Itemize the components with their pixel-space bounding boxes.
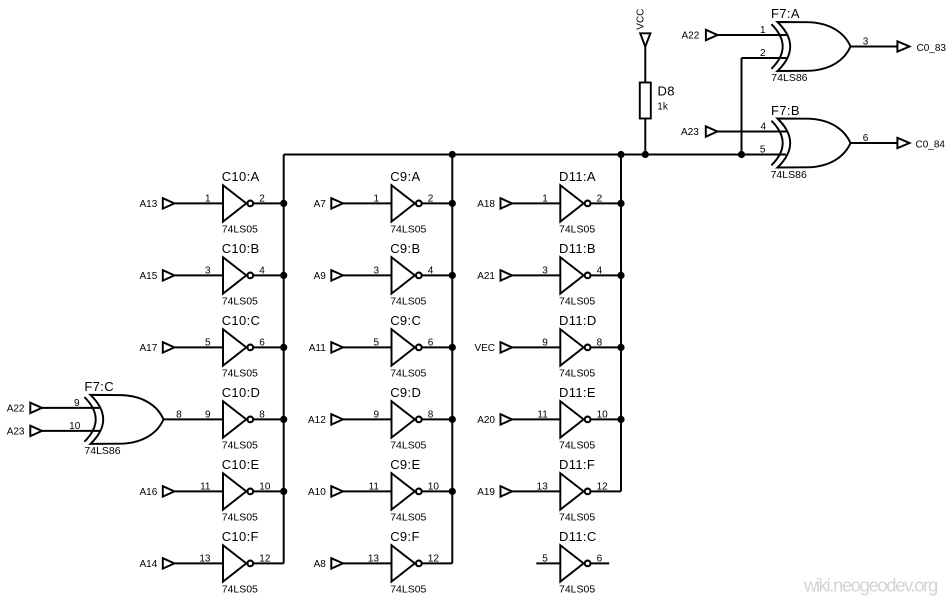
svg-text:12: 12 [597, 481, 609, 492]
svg-text:A8: A8 [314, 559, 327, 570]
svg-text:74LS05: 74LS05 [390, 223, 426, 235]
svg-text:C0_83: C0_83 [917, 43, 947, 54]
svg-text:A22: A22 [7, 404, 25, 415]
svg-text:3: 3 [373, 265, 379, 276]
svg-text:74LS05: 74LS05 [559, 583, 595, 595]
svg-text:8: 8 [597, 337, 603, 348]
svg-text:5: 5 [373, 337, 379, 348]
svg-text:8: 8 [428, 409, 434, 420]
svg-text:6: 6 [597, 553, 603, 564]
svg-text:5: 5 [542, 553, 548, 564]
svg-text:1: 1 [373, 193, 379, 204]
svg-text:74LS05: 74LS05 [390, 583, 426, 595]
svg-text:9: 9 [542, 337, 548, 348]
svg-text:6: 6 [259, 337, 265, 348]
svg-text:9: 9 [205, 409, 211, 420]
svg-text:A21: A21 [477, 271, 495, 282]
svg-text:C9:E: C9:E [390, 457, 420, 472]
svg-text:74LS86: 74LS86 [771, 72, 807, 84]
svg-text:2: 2 [259, 193, 265, 204]
svg-text:74LS05: 74LS05 [559, 223, 595, 235]
svg-text:74LS86: 74LS86 [84, 445, 120, 457]
svg-text:74LS05: 74LS05 [222, 511, 258, 523]
svg-text:10: 10 [597, 409, 609, 420]
svg-text:13: 13 [199, 553, 211, 564]
svg-text:2: 2 [428, 193, 434, 204]
svg-text:A23: A23 [7, 427, 25, 438]
svg-text:A15: A15 [140, 271, 158, 282]
svg-text:A9: A9 [314, 271, 327, 282]
svg-text:F7:B: F7:B [771, 103, 800, 118]
svg-text:74LS05: 74LS05 [222, 295, 258, 307]
svg-text:13: 13 [368, 553, 380, 564]
svg-text:A13: A13 [140, 199, 158, 210]
svg-text:12: 12 [259, 553, 271, 564]
svg-text:74LS86: 74LS86 [771, 169, 807, 181]
svg-text:4: 4 [760, 122, 766, 133]
svg-text:1: 1 [760, 25, 766, 36]
svg-text:A14: A14 [140, 559, 158, 570]
svg-text:C10:A: C10:A [222, 169, 260, 184]
svg-text:D8: D8 [658, 84, 675, 99]
svg-text:A10: A10 [308, 487, 326, 498]
svg-text:C10:B: C10:B [222, 241, 260, 256]
svg-text:C9:A: C9:A [390, 169, 420, 184]
svg-text:74LS05: 74LS05 [222, 439, 258, 451]
svg-text:D11:B: D11:B [559, 241, 596, 256]
svg-text:F7:A: F7:A [771, 6, 800, 21]
svg-text:C10:E: C10:E [222, 457, 260, 472]
svg-text:C10:C: C10:C [222, 313, 261, 328]
svg-text:13: 13 [537, 481, 549, 492]
svg-text:74LS05: 74LS05 [390, 439, 426, 451]
svg-text:2: 2 [760, 48, 766, 59]
svg-text:F7:C: F7:C [84, 379, 114, 394]
svg-text:VEC: VEC [474, 343, 495, 354]
svg-text:4: 4 [428, 265, 434, 276]
svg-text:1: 1 [542, 193, 548, 204]
svg-text:2: 2 [597, 193, 603, 204]
svg-text:1k: 1k [657, 102, 669, 113]
svg-text:8: 8 [176, 409, 182, 420]
svg-text:74LS05: 74LS05 [390, 295, 426, 307]
svg-text:9: 9 [74, 398, 80, 409]
svg-text:6: 6 [428, 337, 434, 348]
svg-text:1: 1 [205, 193, 211, 204]
svg-text:74LS05: 74LS05 [390, 367, 426, 379]
svg-text:C9:C: C9:C [390, 313, 421, 328]
svg-text:74LS05: 74LS05 [222, 367, 258, 379]
svg-text:D11:F: D11:F [559, 457, 595, 472]
svg-text:74LS05: 74LS05 [559, 295, 595, 307]
svg-text:5: 5 [760, 145, 766, 156]
svg-text:C0_84: C0_84 [916, 140, 946, 151]
svg-text:D11:E: D11:E [559, 385, 596, 400]
svg-text:12: 12 [428, 553, 440, 564]
svg-text:A12: A12 [308, 415, 326, 426]
svg-text:C9:B: C9:B [390, 241, 420, 256]
svg-text:10: 10 [428, 481, 440, 492]
svg-text:A17: A17 [140, 343, 158, 354]
svg-text:C9:F: C9:F [390, 529, 420, 544]
svg-text:74LS05: 74LS05 [559, 367, 595, 379]
svg-text:A23: A23 [681, 127, 699, 138]
svg-text:11: 11 [369, 481, 380, 492]
svg-text:D11:A: D11:A [559, 169, 596, 184]
svg-text:10: 10 [259, 481, 271, 492]
svg-text:A18: A18 [477, 199, 495, 210]
svg-text:wiki.neogeodev.org: wiki.neogeodev.org [803, 574, 938, 595]
svg-text:74LS05: 74LS05 [222, 223, 258, 235]
svg-text:8: 8 [259, 409, 265, 420]
svg-text:74LS05: 74LS05 [390, 511, 426, 523]
svg-text:3: 3 [205, 265, 211, 276]
svg-text:9: 9 [373, 409, 379, 420]
svg-text:11: 11 [537, 409, 548, 420]
svg-text:4: 4 [597, 265, 603, 276]
svg-text:74LS05: 74LS05 [559, 511, 595, 523]
svg-text:C10:F: C10:F [222, 529, 259, 544]
svg-text:C10:D: C10:D [222, 385, 261, 400]
svg-text:D11:C: D11:C [559, 529, 597, 544]
svg-text:3: 3 [542, 265, 548, 276]
svg-text:A11: A11 [309, 343, 326, 354]
svg-text:VCC: VCC [635, 9, 646, 30]
svg-text:D11:D: D11:D [559, 313, 597, 328]
svg-text:74LS05: 74LS05 [222, 583, 258, 595]
svg-text:A22: A22 [682, 31, 700, 42]
svg-text:10: 10 [69, 421, 81, 432]
svg-text:A20: A20 [477, 415, 495, 426]
svg-text:5: 5 [205, 337, 211, 348]
svg-text:A7: A7 [314, 199, 327, 210]
svg-text:4: 4 [259, 265, 265, 276]
svg-text:3: 3 [863, 37, 869, 48]
svg-text:A16: A16 [140, 487, 158, 498]
svg-text:6: 6 [863, 133, 869, 144]
svg-text:74LS05: 74LS05 [559, 439, 595, 451]
svg-text:C9:D: C9:D [390, 385, 421, 400]
svg-text:A19: A19 [477, 487, 495, 498]
svg-text:11: 11 [200, 481, 211, 492]
